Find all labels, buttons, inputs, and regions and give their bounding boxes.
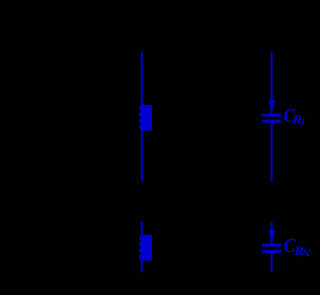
wire left branch top <box>141 52 143 105</box>
inductor L1 <box>139 105 152 131</box>
capacitor C_R1 <box>262 114 281 123</box>
wire right branch bottom <box>271 253 273 272</box>
wire left branch bottom <box>141 260 143 272</box>
capacitor C_RN <box>262 244 281 253</box>
svg-text:N: N <box>301 249 312 259</box>
inductor LN <box>139 235 152 261</box>
wire right branch top <box>271 52 273 114</box>
wire right branch middle <box>271 123 273 182</box>
label C_R1 <box>284 105 307 127</box>
wire right branch below gap <box>271 222 273 244</box>
wire left branch below gap <box>141 222 143 236</box>
current arrow into C_RN <box>269 230 276 239</box>
current arrow into C_R1 <box>269 100 276 109</box>
label C_RN <box>284 235 312 259</box>
svg-text:1: 1 <box>300 117 306 126</box>
wire left branch middle <box>141 130 143 181</box>
